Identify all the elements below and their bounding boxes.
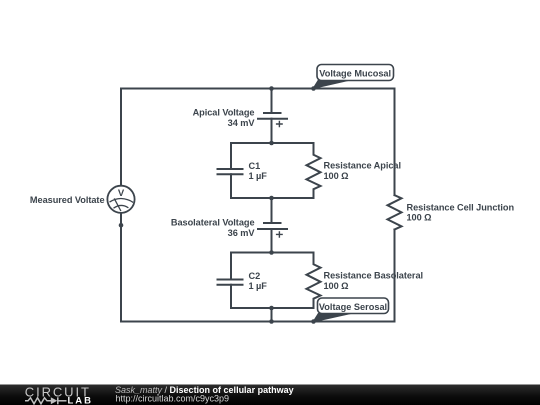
resistor R1 Resistance Apical — [307, 143, 321, 198]
node Voltage Serosal attach — [311, 319, 316, 324]
svg-text:1 µF: 1 µF — [249, 281, 268, 291]
wire box2 bottom edge — [231, 307, 314, 309]
battery V2 Basolateral Voltage plates — [258, 223, 287, 229]
svg-text:100 Ω: 100 Ω — [407, 213, 432, 223]
callout Voltage Mucosal tail — [312, 80, 352, 90]
node box2 top — [269, 250, 274, 255]
battery V1 Apical Voltage plates — [258, 113, 287, 119]
plus sign battery V2 — [276, 231, 283, 238]
footer bar — [0, 385, 540, 405]
svg-text:Measured Voltate: Measured Voltate — [30, 195, 105, 205]
svg-text:36 mV: 36 mV — [228, 228, 256, 238]
svg-text:100 Ω: 100 Ω — [324, 281, 349, 291]
wire bottom rail — [121, 321, 395, 323]
wire right rail upper — [394, 89, 396, 196]
capacitor C2 plates — [218, 280, 243, 285]
resistor R2 Resistance Basolateral — [307, 253, 321, 309]
node box1 bottom — [269, 196, 274, 201]
wire box1 to battery V2 — [271, 198, 273, 223]
svg-text:Apical Voltage: Apical Voltage — [193, 108, 255, 118]
wire box1 top edge — [231, 142, 314, 144]
node below voltmeter — [119, 223, 124, 228]
node dots — [119, 86, 316, 324]
svg-text:Basolateral Voltage: Basolateral Voltage — [171, 218, 255, 228]
node box2 bottom — [269, 306, 274, 311]
wire box2 to bottom rail — [271, 308, 273, 322]
wire middle top branch — [271, 89, 273, 114]
svg-text:C1: C1 — [249, 161, 261, 171]
svg-text:C2: C2 — [249, 271, 261, 281]
svg-text:100 Ω: 100 Ω — [324, 171, 349, 181]
wire box2 top edge — [231, 252, 314, 254]
node on top rail middle branch — [269, 86, 274, 91]
voltmeter U1 circle — [107, 186, 134, 213]
callout Voltage Serosal box — [318, 298, 389, 314]
resistor R3 Resistance Cell Junction zigzag — [388, 195, 402, 229]
svg-text:Resistance Basolateral: Resistance Basolateral — [324, 271, 424, 281]
capacitor C1 leads — [230, 143, 232, 198]
svg-text:Voltage Serosal: Voltage Serosal — [319, 302, 387, 312]
svg-text:34 mV: 34 mV — [228, 118, 256, 128]
svg-text:1 µF: 1 µF — [249, 171, 268, 181]
wire top rail — [121, 88, 395, 90]
capacitor C1 plates — [218, 169, 243, 174]
callout Voltage Serosal tail — [312, 313, 352, 323]
callout Voltage Mucosal box — [317, 65, 394, 81]
node Voltage Mucosal attach — [311, 86, 316, 91]
svg-text:Voltage Mucosal: Voltage Mucosal — [319, 69, 391, 79]
footer logo diode triangle — [51, 397, 58, 404]
node bottom rail middle — [269, 319, 274, 324]
wire left rail lower — [120, 213, 122, 322]
wire battery V2 to box2 — [271, 229, 273, 253]
svg-text:http://circuitlab.com/c9yc3p9: http://circuitlab.com/c9yc3p9 — [116, 393, 230, 403]
wire box1 bottom edge — [231, 197, 314, 199]
wire left rail upper — [120, 89, 122, 187]
footer logo resistor-diode symbol — [25, 397, 67, 404]
svg-text:Resistance Apical: Resistance Apical — [324, 161, 401, 171]
svg-text:Resistance Cell Junction: Resistance Cell Junction — [407, 202, 515, 212]
capacitor C2 leads — [230, 253, 232, 309]
plus sign battery V1 — [276, 121, 283, 238]
wire battery V1 to box1 — [271, 119, 273, 143]
voltmeter U1 gauge — [110, 198, 134, 211]
svg-text:V: V — [118, 188, 125, 199]
svg-text:LAB: LAB — [68, 396, 94, 405]
node box1 top — [269, 141, 274, 146]
wire right rail lower — [394, 230, 396, 322]
